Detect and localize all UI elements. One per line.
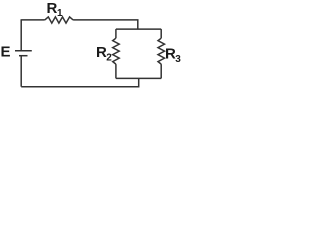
resistor R1	[45, 17, 73, 23]
svg-text:3: 3	[175, 54, 181, 65]
wire R3 branch top	[160, 29, 162, 38]
wire left side lower (battery to bottom corner)	[20, 56, 22, 87]
label R1	[47, 0, 64, 19]
resistor R2	[113, 38, 120, 64]
svg-text:2: 2	[106, 53, 112, 64]
battery E long plate	[15, 50, 32, 52]
wire R1 to top-right corner	[73, 20, 138, 29]
label R3	[165, 45, 181, 65]
wire R3 branch bottom	[160, 64, 162, 78]
svg-text:R: R	[47, 0, 58, 17]
wire left side upper (corner to battery)	[20, 20, 22, 51]
wire bottom	[21, 78, 139, 86]
battery E short plate	[19, 55, 28, 57]
label R2	[96, 44, 112, 64]
wire R2 branch bottom	[115, 64, 117, 78]
resistor R3	[158, 38, 165, 64]
wire top-left to R1	[21, 18, 45, 21]
wire top rail of parallel section	[116, 28, 161, 30]
wire R2 branch top	[115, 29, 117, 38]
svg-text:1: 1	[57, 8, 63, 19]
svg-text:E: E	[1, 44, 11, 61]
wire bottom rail of parallel section	[116, 77, 161, 79]
